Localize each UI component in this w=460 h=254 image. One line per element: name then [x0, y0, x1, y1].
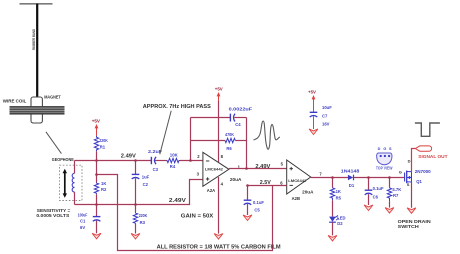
resistor R4 — [167, 153, 181, 169]
svg-text:1K: 1K — [336, 189, 341, 194]
svg-text:LMC6442: LMC6442 — [288, 179, 306, 183]
svg-text:1K: 1K — [101, 181, 106, 186]
svg-text:SWITCH: SWITCH — [398, 224, 419, 230]
capacitor C4 — [229, 106, 253, 127]
svg-text:+5V: +5V — [92, 119, 101, 124]
svg-text:LED: LED — [337, 215, 345, 220]
resistor R3 — [133, 205, 148, 234]
ground below C1 — [92, 233, 101, 239]
ground below C5 — [243, 215, 252, 221]
capacitor C3 — [148, 149, 162, 172]
svg-text:20uA: 20uA — [230, 177, 242, 182]
geophone coil inductor — [72, 173, 74, 192]
waveform squiggle annotation — [254, 121, 281, 149]
geophone motion double arrow — [63, 169, 67, 198]
svg-text:ALL RESISTOR = 1/8 WATT 5% CAR: ALL RESISTOR = 1/8 WATT 5% CARBON FILM — [157, 244, 281, 250]
svg-text:C1: C1 — [80, 218, 86, 223]
capacitor C5 — [244, 186, 265, 216]
svg-text:10K: 10K — [170, 153, 179, 158]
capacitor C6 — [365, 178, 384, 206]
svg-text:2.49V: 2.49V — [255, 164, 271, 170]
svg-text:10uF: 10uF — [322, 105, 332, 110]
svg-text:470K: 470K — [225, 132, 235, 137]
wire A middle segment (C3 to R4) — [154, 160, 167, 162]
svg-text:C3: C3 — [153, 167, 159, 172]
wire Q1 drain to signal out — [412, 149, 416, 172]
svg-text:2.49V: 2.49V — [169, 198, 187, 204]
svg-text:6V: 6V — [80, 225, 85, 230]
svg-text:R6: R6 — [226, 146, 232, 151]
svg-text:A2A: A2A — [207, 188, 215, 193]
wire +5V to pin8 — [218, 101, 220, 164]
capacitor C2 — [132, 161, 150, 205]
svg-text:0.0022uF: 0.0022uF — [229, 106, 253, 111]
svg-text:GEOPHONE: GEOPHONE — [52, 157, 74, 162]
ground below D2 — [328, 235, 337, 241]
capacitor C7 — [310, 105, 333, 129]
feedback wire R6 line left — [191, 140, 226, 142]
diode D1 — [341, 169, 360, 189]
wire Q1 source to ground — [411, 182, 413, 208]
resistor R7 — [387, 178, 401, 208]
svg-text:2.49V: 2.49V — [121, 153, 137, 159]
ground below C7 — [309, 129, 318, 135]
wire A2B output — [311, 177, 348, 179]
support bar (top of geophone drawing) — [20, 3, 53, 5]
feedback wire C4 line — [191, 117, 231, 119]
+5V symbol at R1 — [92, 119, 101, 136]
svg-text:20uA: 20uA — [302, 189, 314, 194]
SIGNAL OUT port oval — [415, 146, 431, 151]
svg-text:C6: C6 — [373, 194, 379, 199]
wire pin4 to ground — [218, 177, 220, 234]
svg-text:0.0005 VOLTS: 0.0005 VOLTS — [36, 213, 70, 219]
junction dots — [95, 159, 391, 206]
svg-text:G: G — [383, 147, 386, 151]
svg-text:C4: C4 — [235, 122, 241, 127]
svg-text:100uF: 100uF — [78, 212, 88, 217]
svg-text:R2: R2 — [101, 187, 107, 192]
wire B bottom rail — [75, 180, 203, 205]
svg-text:LMC6442: LMC6442 — [205, 167, 223, 171]
svg-text:TOP VIEW: TOP VIEW — [376, 166, 393, 171]
svg-text:A2B: A2B — [292, 196, 300, 201]
svg-text:R3: R3 — [140, 220, 146, 225]
annotation pointer line — [160, 111, 171, 154]
svg-text:D: D — [378, 147, 381, 151]
svg-text:220K: 220K — [99, 138, 108, 143]
wire R1 bottom to wire A — [96, 151, 98, 160]
svg-text:+5V: +5V — [308, 90, 316, 95]
svg-text:2N7000: 2N7000 — [415, 169, 431, 174]
resistor R2 — [94, 161, 107, 205]
wire: coil top to wire A — [74, 161, 76, 174]
svg-text:1uF: 1uF — [142, 175, 150, 180]
svg-text:0.1uF: 0.1uF — [253, 200, 264, 205]
svg-text:0.1uF: 0.1uF — [373, 186, 384, 191]
+5V symbol at C7 — [308, 90, 316, 112]
svg-text:220K: 220K — [139, 213, 148, 218]
ground below R3 — [131, 234, 140, 240]
wire coil bar — [10, 106, 65, 114]
+5V symbol at A2A pin8 — [215, 87, 223, 101]
magnet body — [31, 97, 42, 123]
svg-text:1N4148: 1N4148 — [341, 169, 360, 174]
wire A left segment — [75, 160, 152, 162]
svg-text:Q1: Q1 — [416, 179, 422, 184]
svg-text:D: D — [408, 158, 411, 163]
annotation pointer line to geophone symbol — [46, 132, 62, 154]
pulse waveform annotation — [415, 123, 440, 136]
resistor R6 — [225, 132, 235, 151]
wire tap from R2 top to A2B pin6 (long loop) — [97, 175, 273, 251]
feedback wire C4 to right vertical — [234, 117, 246, 119]
feedback wire pin2 vertical — [190, 118, 192, 161]
svg-text:+5V: +5V — [215, 87, 223, 92]
feedback wire R6 line right — [235, 140, 246, 142]
svg-text:4.7K: 4.7K — [392, 187, 401, 192]
ground below A2A pin4 — [214, 234, 223, 240]
svg-text:D1: D1 — [349, 183, 355, 188]
LED D2 — [329, 215, 345, 235]
svg-text:C5: C5 — [254, 208, 260, 213]
svg-text:R1: R1 — [100, 145, 106, 150]
wire A2A output — [229, 168, 287, 170]
ground below C6 — [364, 205, 373, 211]
wire A right segment (R4 to pin2) — [180, 160, 203, 162]
wire: coil bottom to wire B — [74, 192, 76, 204]
wire pin6 stub — [248, 185, 287, 187]
svg-text:S: S — [407, 182, 410, 187]
svg-text:RUBBER BAND: RUBBER BAND — [32, 29, 36, 50]
op-amp U1 A2B — [280, 160, 322, 201]
svg-text:16V: 16V — [322, 122, 330, 127]
capacitor C1 — [78, 205, 101, 234]
resistor R5 — [330, 178, 341, 217]
svg-text:C7: C7 — [322, 114, 328, 119]
rubber band rod — [36, 4, 38, 98]
svg-text:D2: D2 — [337, 221, 343, 226]
svg-text:R4: R4 — [170, 164, 176, 169]
svg-text:MAGNET: MAGNET — [44, 94, 61, 99]
svg-text:WIRE COIL: WIRE COIL — [3, 99, 27, 104]
resistor R1 — [94, 136, 108, 152]
TO-92 top view symbol — [376, 147, 393, 170]
wire D1 to Q1 gate — [354, 177, 405, 179]
svg-text:GAIN = 50X: GAIN = 50X — [181, 213, 214, 219]
ground below R7 — [385, 208, 394, 214]
svg-text:G: G — [399, 170, 402, 175]
transistor Q1 2N7000 — [399, 158, 431, 186]
geophone dashed box — [60, 165, 83, 200]
feedback right vertical to output — [246, 118, 248, 169]
svg-text:SIGNAL OUT: SIGNAL OUT — [418, 154, 447, 160]
svg-text:APPROX. 7Hz HIGH PASS: APPROX. 7Hz HIGH PASS — [143, 104, 212, 110]
op-amp U1 A2A — [197, 152, 243, 193]
svg-text:C2: C2 — [143, 182, 149, 187]
ground below Q1 source — [407, 208, 416, 214]
svg-text:R5: R5 — [336, 195, 342, 200]
svg-text:R7: R7 — [393, 193, 399, 198]
